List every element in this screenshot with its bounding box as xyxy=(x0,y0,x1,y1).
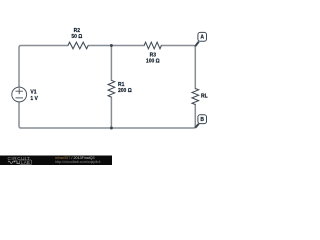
svg-text:200 Ω: 200 Ω xyxy=(118,88,132,94)
svg-text:A: A xyxy=(200,34,204,40)
svg-text:100 Ω: 100 Ω xyxy=(146,59,160,65)
svg-text:B: B xyxy=(200,117,204,123)
svg-text:R1: R1 xyxy=(118,82,125,88)
svg-text:http://circuitlab.com/cqkjdb4: http://circuitlab.com/cqkjdb4 xyxy=(55,160,101,164)
svg-text:50 Ω: 50 Ω xyxy=(71,34,82,40)
svg-text:RL: RL xyxy=(201,94,208,100)
svg-text:LAB: LAB xyxy=(21,160,30,165)
svg-text:1 V: 1 V xyxy=(30,96,38,102)
svg-text:V1: V1 xyxy=(30,90,36,96)
